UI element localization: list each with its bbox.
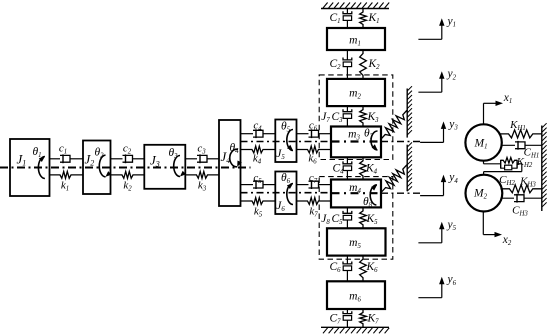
damper c7 [297, 184, 312, 186]
leader centerline m3 to y3 (dash-dot) [381, 141, 420, 143]
mass m1 [327, 28, 385, 50]
wheel M1 [465, 124, 501, 160]
top ground (fixed support) [321, 8, 389, 10]
axis x2 [482, 212, 484, 235]
spring K2 [360, 50, 367, 79]
spring K7 [360, 309, 367, 327]
axis y3 [420, 141, 443, 143]
inertia J6 box [275, 172, 296, 215]
spring k2 [111, 172, 145, 179]
spring k7 [297, 198, 331, 205]
rotation arrow theta3 [174, 156, 180, 177]
hub wall (fixed) [541, 126, 543, 212]
leader centerline m4 to y4 (dash-dot) [381, 192, 420, 194]
damper C4 [346, 157, 348, 164]
branch 1 shaft centerline (dash-dot) [241, 141, 332, 143]
dashed boundary box (upper gear subsystem) [319, 75, 393, 160]
spring k4 [241, 146, 276, 153]
mesh wall 1 (fixed) [406, 89, 408, 138]
dashed boundary box (lower gear subsystem) [319, 177, 393, 260]
rotation arrow theta2 [99, 155, 105, 177]
rotation arrow theta5 [287, 130, 293, 151]
bottom ground (fixed support) [321, 326, 389, 328]
mass m2 [327, 79, 385, 106]
rotation arrow theta8 [370, 185, 377, 205]
axis y2 [418, 91, 441, 93]
rotation arrow theta6 [287, 184, 293, 205]
inertia J4 box [219, 120, 241, 206]
centerline through mass m4 (bold dash) [332, 192, 382, 194]
damper C1 [346, 9, 348, 14]
damper C2 [346, 50, 348, 60]
spring k6 [297, 146, 332, 153]
axis y4 [420, 195, 443, 197]
damper C6 [346, 256, 348, 264]
spring K3 [360, 106, 367, 126]
spring k1 [50, 172, 84, 179]
wheel M2 [466, 175, 503, 212]
spring K1 [360, 9, 367, 29]
damper c5 [241, 184, 257, 186]
inertia J5 box [275, 120, 296, 163]
damper C5 [346, 207, 348, 213]
damper CH1 [501, 144, 518, 146]
mass m5 [327, 228, 386, 255]
damper c2 [111, 158, 126, 160]
rotation arrow theta7 [371, 131, 378, 150]
damper c3 [185, 158, 200, 160]
axis y1 [418, 38, 441, 40]
damper CH3 [501, 197, 517, 199]
axis y5 [418, 242, 441, 244]
axis y6 [418, 297, 441, 299]
damper C7 [346, 309, 348, 314]
gear mesh spring m3-wall [381, 110, 407, 139]
inertia J1 box [10, 139, 50, 196]
damper c1 [50, 158, 64, 160]
main shaft centerline (dash-dot) [0, 167, 251, 169]
spring KH1 [499, 130, 542, 138]
inertia J3 box [144, 145, 185, 189]
damper c4 [241, 133, 257, 135]
spring KH3 [500, 185, 541, 193]
spring-damper unit KH2 CH2 [500, 160, 502, 169]
spring k5 [241, 198, 276, 205]
mass m4 box [331, 180, 381, 208]
rotation arrow theta4 [230, 149, 238, 167]
spring K5 [360, 207, 367, 228]
spring K6 [360, 256, 367, 282]
wire M1 to spring-damper KH2 [483, 161, 485, 164]
mass m6 [327, 281, 385, 309]
damper c6 [297, 133, 312, 135]
spring k3 [185, 172, 219, 179]
gear mesh spring m4-wall [381, 165, 407, 193]
mass m3 box [331, 127, 381, 158]
spring K4 [360, 157, 367, 179]
branch 2 shaft centerline (dash-dot) [241, 192, 332, 194]
damper C3 [346, 106, 348, 112]
wire spring-damper KH2 to M2 [517, 163, 522, 165]
rotation arrow theta1 [38, 157, 44, 179]
centerline through mass m3 (bold dash) [332, 140, 382, 142]
axis x1 [483, 103, 485, 124]
inertia J2 box [83, 141, 111, 195]
mesh wall 2 (fixed) [406, 145, 408, 192]
